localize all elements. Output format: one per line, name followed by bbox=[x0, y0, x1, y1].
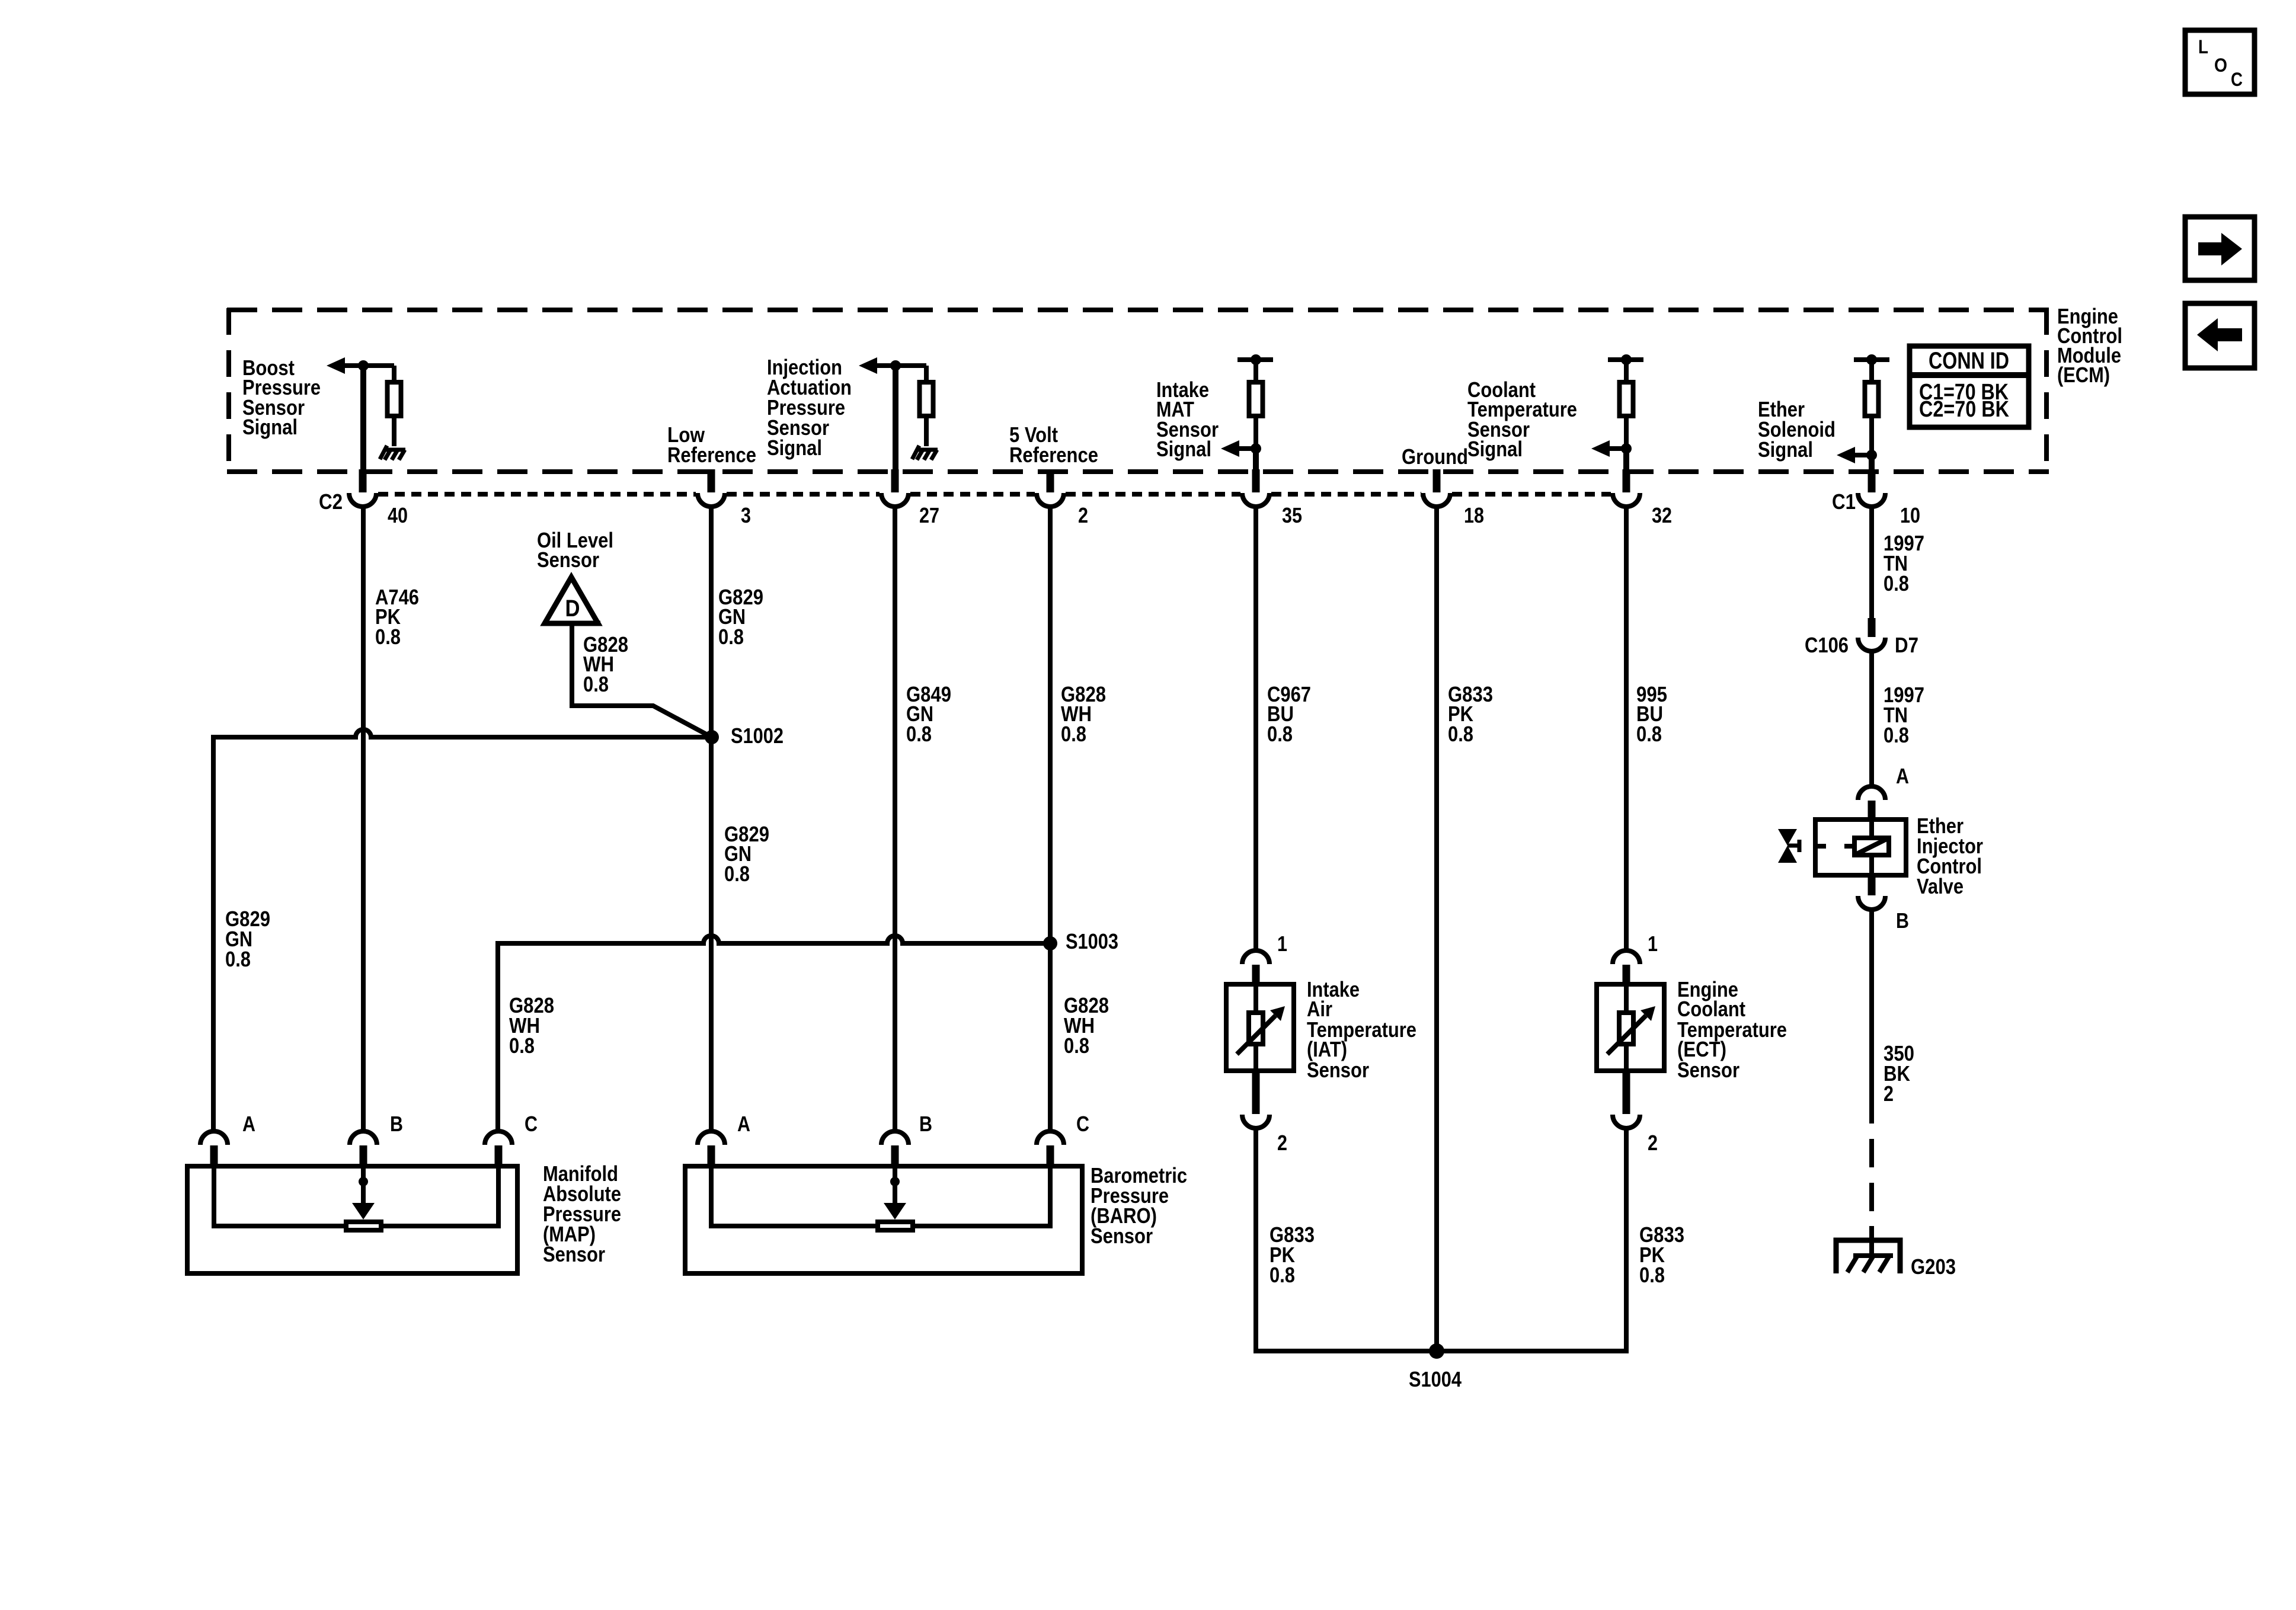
IAT thermistor element bbox=[1237, 1006, 1285, 1054]
svg-text:Signal: Signal bbox=[1758, 437, 1813, 462]
svg-text:Sensor: Sensor bbox=[543, 1242, 605, 1266]
wire 1997 TN pin 10 to C106 bbox=[1869, 506, 1874, 619]
BARO sensor pin C bbox=[1037, 1112, 1089, 1169]
svg-text:Ground: Ground bbox=[1402, 444, 1468, 469]
ECM connector pin 3 bbox=[698, 469, 751, 527]
wire to boost pull-down resistor bbox=[392, 366, 396, 382]
svg-text:2: 2 bbox=[1884, 1081, 1894, 1106]
ether signal arrow bbox=[1837, 447, 1872, 463]
ether pull-up rail bar bbox=[1854, 357, 1889, 362]
BARO wiper dot bbox=[890, 1177, 900, 1186]
IAT pin 1 bbox=[1242, 932, 1287, 984]
wire boost junction to pin 40 bbox=[360, 366, 366, 472]
ECM connector pin 32 bbox=[1613, 469, 1672, 527]
oil level sensor triangle D bbox=[544, 577, 600, 623]
wire rail to MAT resistor bbox=[1253, 360, 1258, 382]
svg-text:B: B bbox=[390, 1112, 403, 1136]
injection junction dot bbox=[890, 360, 901, 371]
IAT pin 2 bbox=[1242, 1071, 1287, 1155]
wire label G828 WH 0.8 (BARO C branch) bbox=[1064, 993, 1109, 1058]
Engine Coolant Temperature (ECT) Sensor label bbox=[1677, 977, 1787, 1082]
back arrow box bbox=[2185, 303, 2255, 368]
MAP sensor pin B bbox=[350, 1112, 403, 1169]
ECT thermistor wire through bbox=[1624, 984, 1629, 1071]
coolant junction dot bbox=[1621, 443, 1632, 454]
wire label G833 PK 0.8 (ECT) bbox=[1639, 1222, 1684, 1287]
ether junction dot bbox=[1866, 450, 1877, 460]
svg-text:S1004: S1004 bbox=[1409, 1367, 1462, 1391]
wire label G833 PK 0.8 (pin 18) bbox=[1448, 682, 1493, 746]
svg-text:1: 1 bbox=[1277, 932, 1287, 956]
Intake Air Temperature (IAT) Sensor label bbox=[1307, 977, 1416, 1082]
svg-text:Reference: Reference bbox=[667, 443, 756, 467]
BARO potentiometer element bbox=[878, 1222, 913, 1230]
injection internal chassis ground bbox=[912, 446, 919, 459]
svg-text:0.8: 0.8 bbox=[375, 625, 401, 649]
wire label G829 GN 0.8 (pin 3 upper) bbox=[718, 585, 763, 649]
svg-text:2: 2 bbox=[1277, 1131, 1287, 1155]
wire label 350 BK 2 bbox=[1884, 1041, 1914, 1106]
wire rail to ether resistor bbox=[1869, 360, 1874, 382]
svg-text:C2: C2 bbox=[319, 489, 343, 514]
svg-text:Valve: Valve bbox=[1917, 874, 1964, 898]
svg-text:C2=70 BK: C2=70 BK bbox=[1919, 397, 2009, 422]
svg-text:O: O bbox=[2214, 55, 2227, 76]
wire 1997 TN C106 to valve pin A bbox=[1869, 651, 1874, 786]
svg-text:S1003: S1003 bbox=[1066, 929, 1118, 953]
IAT sensor box bbox=[1226, 984, 1294, 1071]
coolant pull-up rail bar bbox=[1608, 357, 1643, 362]
MAP sensor pin C bbox=[485, 1112, 538, 1169]
MAP potentiometer element bbox=[346, 1222, 381, 1230]
wire G828 WH pin 2 to BARO pin C bbox=[1048, 506, 1053, 1131]
ether valve pin B bbox=[1858, 875, 1909, 933]
wire rail to coolant resistor bbox=[1624, 360, 1629, 382]
ECM connector pin 27 bbox=[881, 469, 939, 527]
MAT signal arrow bbox=[1221, 440, 1256, 457]
svg-text:18: 18 bbox=[1464, 503, 1484, 527]
wire label G828 WH 0.8 (MAP C branch) bbox=[509, 993, 554, 1058]
wire label G828 WH 0.8 (pin 2 upper) bbox=[1061, 682, 1106, 746]
svg-text:0.8: 0.8 bbox=[906, 722, 932, 746]
wire label G833 PK 0.8 (IAT) bbox=[1269, 1222, 1315, 1287]
svg-text:0.8: 0.8 bbox=[724, 862, 750, 886]
svg-text:0.8: 0.8 bbox=[1636, 722, 1662, 746]
svg-text:Signal: Signal bbox=[1467, 437, 1523, 461]
wire label C967 BU 0.8 bbox=[1267, 682, 1311, 746]
Oil Level Sensor label bbox=[537, 528, 613, 572]
svg-text:0.8: 0.8 bbox=[1884, 571, 1909, 596]
ECT pin 2 bbox=[1613, 1071, 1658, 1155]
svg-text:C: C bbox=[525, 1112, 538, 1136]
svg-text:C1: C1 bbox=[1832, 489, 1856, 514]
ground G203 symbol bbox=[1836, 1226, 1900, 1273]
wire G833 PK pin 18 to S1004 bbox=[1434, 506, 1439, 1351]
splice S1002 dot bbox=[705, 730, 719, 744]
svg-text:A: A bbox=[1896, 764, 1909, 788]
svg-text:0.8: 0.8 bbox=[1064, 1033, 1089, 1058]
wire MAT junction to pin 35 bbox=[1253, 449, 1259, 472]
injection pull-down resistor bbox=[920, 382, 933, 416]
Barometric Pressure (BARO) Sensor label bbox=[1091, 1163, 1187, 1248]
BARO sensor pin A bbox=[698, 1112, 750, 1169]
wire C967 BU pin 35 to IAT pin 1 bbox=[1253, 506, 1258, 950]
ECM dashed box outline bbox=[227, 308, 2049, 474]
BARO sensor box bbox=[685, 1166, 1082, 1273]
wire ether resistor to junction bbox=[1869, 416, 1874, 455]
MAP sensor pin A bbox=[200, 1112, 255, 1169]
svg-text:Signal: Signal bbox=[767, 436, 822, 460]
connector C2 dotted harness line bbox=[378, 492, 1611, 497]
svg-text:B: B bbox=[919, 1112, 932, 1136]
boost pull-down resistor bbox=[388, 382, 401, 416]
wire MAT resistor to junction bbox=[1253, 416, 1258, 449]
valve icon (hourglass) bbox=[1778, 829, 1799, 863]
ECM connector pin 18 bbox=[1423, 469, 1484, 527]
ECT thermistor element bbox=[1607, 1006, 1655, 1054]
svg-text:35: 35 bbox=[1282, 503, 1302, 527]
wire label 1997 TN 0.8 (upper) bbox=[1884, 531, 1924, 596]
boost junction dot bbox=[358, 360, 369, 371]
svg-text:2: 2 bbox=[1078, 503, 1088, 527]
svg-text:D: D bbox=[565, 596, 580, 622]
wire G849 GN pin 27 to BARO pin B bbox=[893, 506, 897, 1131]
boost internal chassis ground bbox=[380, 446, 387, 459]
wire A746 PK pin 40 to MAP pin B bbox=[361, 506, 366, 1131]
5 Volt Reference label bbox=[1009, 422, 1098, 467]
Engine Control Module (ECM) label bbox=[2057, 304, 2122, 387]
wire label G829 GN 0.8 (MAP A branch) bbox=[225, 907, 270, 971]
ether injector control valve box bbox=[1815, 820, 1906, 875]
wire label 1997 TN 0.8 (lower) bbox=[1884, 683, 1924, 747]
Low Reference label bbox=[667, 422, 756, 467]
forward arrow box bbox=[2185, 217, 2255, 280]
svg-text:C: C bbox=[2231, 69, 2243, 90]
wire to injection pull-down resistor bbox=[924, 366, 929, 382]
wire label A746 PK 0.8 bbox=[375, 585, 419, 649]
MAP internal wire C to potentiometer bbox=[381, 1169, 498, 1226]
Boost Pressure Sensor Signal label bbox=[242, 356, 321, 439]
Manifold Absolute Pressure (MAP) Sensor label bbox=[543, 1161, 621, 1266]
wire label G829 GN 0.8 (pin 3 lower) bbox=[724, 822, 769, 886]
svg-text:0.8: 0.8 bbox=[225, 947, 251, 971]
wire resistor to ground bbox=[392, 416, 396, 446]
wire G833 PK ECT pin 2 to S1004 bbox=[1437, 1128, 1626, 1351]
svg-text:10: 10 bbox=[1900, 503, 1920, 527]
boost signal arrow bbox=[327, 357, 394, 374]
wire G828 WH oil sensor to S1002 bbox=[572, 623, 712, 737]
svg-text:C: C bbox=[1076, 1112, 1089, 1136]
wire 995 BU pin 32 to ECT pin 1 bbox=[1624, 506, 1629, 950]
svg-text:Reference: Reference bbox=[1009, 443, 1098, 467]
coolant signal arrow bbox=[1591, 440, 1626, 457]
MAP sensor box bbox=[187, 1166, 517, 1273]
svg-text:C106: C106 bbox=[1805, 633, 1849, 657]
svg-text:3: 3 bbox=[741, 503, 751, 527]
wire G833 PK IAT pin 2 to S1004 bbox=[1256, 1128, 1437, 1351]
BARO wiper arrow bbox=[884, 1169, 906, 1219]
splice S1003 horizontal wire with hops bbox=[498, 936, 1050, 1131]
svg-text:(ECM): (ECM) bbox=[2057, 363, 2110, 387]
ECM connector pin C2-40 bbox=[349, 469, 408, 527]
wire coolant resistor to junction bbox=[1624, 416, 1629, 449]
ether valve pin A bbox=[1858, 764, 1909, 820]
BARO sensor pin B bbox=[881, 1112, 932, 1169]
svg-text:0.8: 0.8 bbox=[1639, 1263, 1665, 1287]
svg-text:27: 27 bbox=[919, 503, 939, 527]
Injection Actuation Pressure Sensor Signal label bbox=[767, 355, 852, 460]
wire injection junction to pin 27 bbox=[893, 366, 898, 472]
wire G829 GN pin 3 to BARO pin A bbox=[709, 506, 714, 1131]
svg-text:L: L bbox=[2198, 36, 2208, 57]
LOC legend box bbox=[2185, 30, 2255, 94]
wire 350 BK valve pin B to ground bbox=[1869, 910, 1874, 1124]
svg-text:Signal: Signal bbox=[242, 415, 298, 439]
ether pull-up resistor bbox=[1865, 382, 1879, 416]
ECT sensor box bbox=[1597, 984, 1664, 1071]
svg-text:B: B bbox=[1896, 908, 1909, 933]
svg-text:0.8: 0.8 bbox=[509, 1033, 535, 1058]
wire ether junction to pin 10 bbox=[1869, 455, 1875, 472]
ECM connector pin C1-10 bbox=[1858, 469, 1920, 527]
wire label 995 BU 0.8 bbox=[1636, 682, 1667, 746]
svg-text:D7: D7 bbox=[1895, 633, 1918, 657]
MAT rail dot bbox=[1251, 354, 1261, 365]
coolant pull-up resistor bbox=[1620, 382, 1633, 416]
Intake MAT Sensor Signal label bbox=[1156, 377, 1219, 461]
svg-text:0.8: 0.8 bbox=[1884, 723, 1909, 747]
svg-text:A: A bbox=[737, 1112, 750, 1136]
MAT pull-up resistor bbox=[1249, 382, 1263, 416]
BARO internal wire A to potentiometer bbox=[711, 1169, 878, 1226]
svg-text:Sensor: Sensor bbox=[1677, 1058, 1739, 1082]
in-line connector C106 pin D7 bbox=[1805, 618, 1918, 657]
ECM connector pin 2 bbox=[1037, 469, 1088, 527]
coolant rail dot bbox=[1621, 354, 1632, 365]
svg-text:1: 1 bbox=[1648, 932, 1658, 956]
wire label G828 WH 0.8 (oil sensor) bbox=[583, 632, 628, 696]
MAP internal wire A to potentiometer bbox=[214, 1169, 346, 1226]
ether rail dot bbox=[1866, 354, 1877, 365]
splice S1003 dot bbox=[1043, 936, 1057, 950]
svg-text:A: A bbox=[242, 1112, 255, 1136]
valve solenoid coil element bbox=[1854, 820, 1889, 875]
ECT pin 1 bbox=[1613, 932, 1658, 984]
svg-text:Sensor: Sensor bbox=[1307, 1058, 1369, 1082]
svg-text:CONN ID: CONN ID bbox=[1929, 348, 2009, 374]
BARO internal wire C to potentiometer bbox=[913, 1169, 1050, 1226]
wire resistor to ground bbox=[924, 416, 929, 446]
IAT thermistor wire through bbox=[1253, 984, 1258, 1071]
svg-text:0.8: 0.8 bbox=[1269, 1263, 1295, 1287]
svg-text:0.8: 0.8 bbox=[1267, 722, 1293, 746]
svg-text:0.8: 0.8 bbox=[583, 672, 609, 696]
svg-text:32: 32 bbox=[1652, 503, 1672, 527]
svg-text:Sensor: Sensor bbox=[1091, 1224, 1153, 1248]
svg-text:0.8: 0.8 bbox=[1448, 722, 1473, 746]
MAP wiper arrow bbox=[352, 1169, 375, 1219]
svg-text:0.8: 0.8 bbox=[1061, 722, 1086, 746]
svg-text:0.8: 0.8 bbox=[718, 625, 744, 649]
wire coolant junction to pin 32 bbox=[1623, 449, 1629, 472]
svg-text:Sensor: Sensor bbox=[537, 548, 599, 572]
dashed wire segment to G203 bbox=[1869, 1124, 1874, 1240]
MAP wiper dot bbox=[359, 1177, 368, 1186]
Coolant Temperature Sensor Signal label bbox=[1467, 377, 1577, 461]
injection signal arrow bbox=[859, 357, 926, 374]
CONN ID table bbox=[1910, 346, 2029, 427]
svg-text:2: 2 bbox=[1648, 1131, 1658, 1155]
svg-text:Signal: Signal bbox=[1156, 437, 1211, 461]
Ether Solenoid Signal label bbox=[1758, 397, 1835, 462]
valve internal dashed link bbox=[1815, 844, 1852, 849]
Ether Injector Control Valve label bbox=[1917, 814, 1983, 898]
svg-text:40: 40 bbox=[388, 503, 408, 527]
svg-text:G203: G203 bbox=[1911, 1254, 1956, 1279]
MAT junction dot bbox=[1251, 443, 1261, 454]
splice S1004 dot bbox=[1429, 1343, 1444, 1359]
wire label G849 GN 0.8 bbox=[906, 682, 951, 746]
ECM connector pin 35 bbox=[1242, 469, 1302, 527]
MAT pull-up rail bar bbox=[1237, 357, 1273, 362]
splice S1002 horizontal wire with hop over A746 bbox=[213, 729, 712, 1131]
svg-text:S1002: S1002 bbox=[731, 724, 784, 748]
